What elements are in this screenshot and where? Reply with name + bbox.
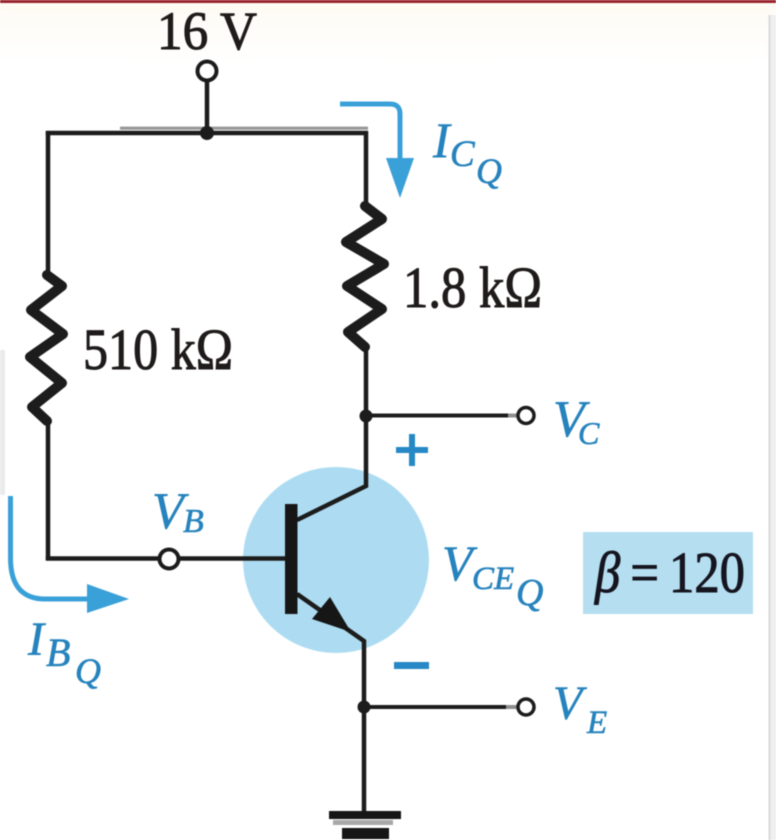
- svg-text:β = 120: β = 120: [594, 540, 745, 605]
- svg-text:C: C: [450, 134, 476, 175]
- svg-text:Q: Q: [476, 151, 502, 191]
- svg-text:CE: CE: [472, 561, 514, 597]
- svg-text:510 kΩ: 510 kΩ: [83, 317, 233, 382]
- svg-text:1.8 kΩ: 1.8 kΩ: [403, 255, 542, 320]
- svg-text:I: I: [27, 613, 46, 666]
- svg-text:Q: Q: [516, 572, 543, 614]
- svg-text:E: E: [586, 705, 607, 741]
- svg-text:I: I: [432, 112, 452, 168]
- svg-text:Q: Q: [75, 651, 101, 691]
- svg-text:16 V: 16 V: [157, 1, 257, 61]
- svg-text:B: B: [183, 503, 204, 540]
- svg-text:C: C: [578, 415, 600, 451]
- svg-text:V: V: [553, 677, 587, 730]
- svg-text:B: B: [46, 630, 70, 675]
